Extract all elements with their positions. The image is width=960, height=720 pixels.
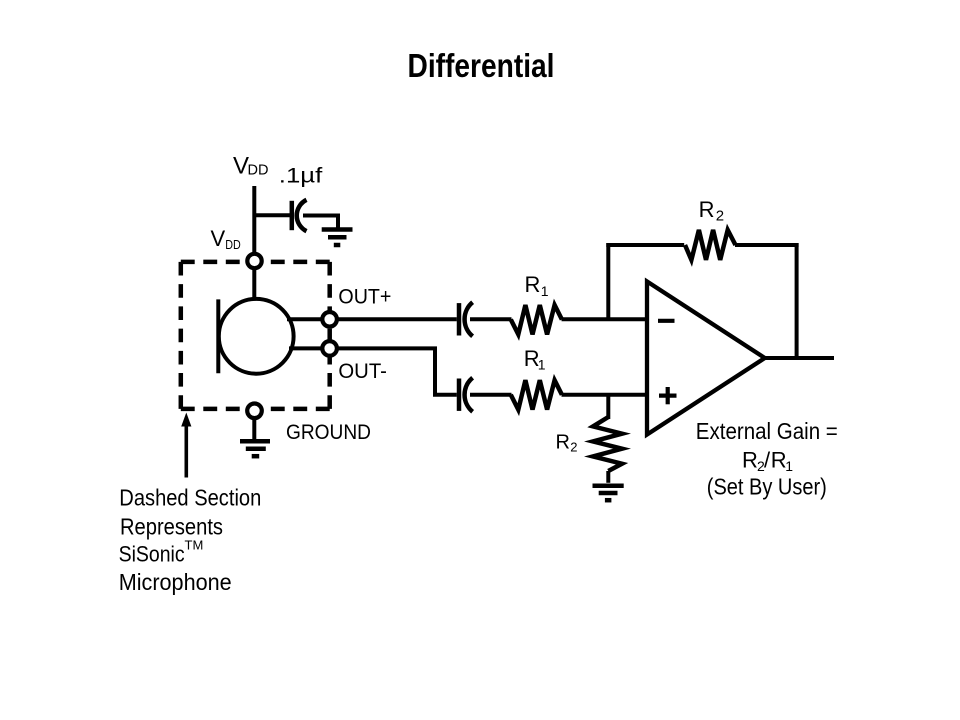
- label SiSonic TM: [119, 538, 204, 567]
- wire VDD vertical rail: [252, 186, 256, 300]
- svg-text:Dashed Section: Dashed Section: [119, 485, 261, 511]
- label R2/R1: [742, 447, 793, 474]
- svg-text:R: R: [771, 447, 787, 472]
- microphone M1 circle: [219, 299, 294, 374]
- svg-text:R: R: [556, 432, 570, 454]
- svg-text:GROUND: GROUND: [286, 420, 371, 444]
- wire bypass cap feed: [254, 213, 290, 217]
- wire OUT+ line: [337, 317, 457, 321]
- resistor R2 (feedback): [685, 230, 736, 260]
- wire feedback top left: [606, 243, 684, 247]
- label R2 (to ground): [556, 432, 578, 455]
- capacitor C2 plate 1: [457, 303, 462, 335]
- resistor R1 (upper): [511, 305, 562, 334]
- wire mic to OUT- node: [289, 346, 324, 350]
- resistor R2 (to ground): [593, 417, 622, 471]
- svg-text:(Set By User): (Set By User): [707, 474, 827, 500]
- wire cap C3 to R1 lower: [470, 393, 512, 397]
- wire feedback down to output: [795, 243, 799, 358]
- microphone M1 backplate bar: [216, 299, 220, 373]
- node OUT+: [322, 312, 337, 327]
- wire node to ground: [252, 418, 256, 441]
- node OUT-: [322, 341, 337, 356]
- label VDD (at box): [211, 226, 241, 252]
- wire output: [765, 356, 834, 360]
- svg-text:R: R: [699, 197, 715, 222]
- svg-text:Represents: Represents: [120, 514, 223, 540]
- wire R2 bottom tap: [606, 395, 610, 419]
- svg-text:1: 1: [785, 458, 793, 474]
- wire R2 to ground: [606, 471, 610, 483]
- svg-text:Microphone: Microphone: [119, 569, 232, 595]
- svg-text:OUT-: OUT-: [338, 360, 387, 383]
- node GROUND (bottom of box): [247, 404, 262, 419]
- wire R1 to op-amp inverting input: [562, 317, 648, 321]
- svg-text:R: R: [525, 272, 541, 297]
- op-amp minus sign: [658, 319, 675, 323]
- wire cap C2 to R1: [470, 317, 512, 321]
- svg-text:1: 1: [538, 357, 546, 373]
- capacitor C2 plate 2 (curved): [465, 302, 473, 336]
- dashed box (SiSonic outline): [181, 262, 330, 409]
- wire mic to OUT+ node: [287, 317, 324, 321]
- ground (bypass cap): [322, 230, 353, 246]
- svg-text:R: R: [742, 447, 758, 472]
- ground (microphone): [240, 441, 270, 456]
- svg-text:V: V: [211, 226, 226, 251]
- svg-text:TM: TM: [185, 538, 204, 553]
- capacitor C3 plate 1: [457, 379, 462, 411]
- capacitor C1 .1uf plate 2 (curved): [297, 200, 307, 231]
- svg-text:1: 1: [541, 283, 549, 299]
- capacitor C3 plate 2 (curved): [465, 378, 473, 412]
- wire feedback tap up: [606, 243, 610, 319]
- svg-text:External Gain =: External Gain =: [696, 418, 838, 444]
- svg-text:OUT+: OUT+: [338, 286, 391, 309]
- node VDD (top of box): [247, 254, 261, 268]
- wire feedback top right: [735, 243, 799, 247]
- wire R1 lower to op-amp non-inverting input: [562, 393, 648, 397]
- label R2 (feedback): [699, 197, 725, 225]
- wire OUT- step: [337, 348, 457, 394]
- ground (R2): [593, 486, 624, 500]
- capacitor C1 .1uf plate 1: [290, 201, 295, 230]
- label R1 (upper): [525, 272, 549, 299]
- svg-text:.1µf: .1µf: [279, 165, 323, 188]
- label R1 (lower): [524, 346, 546, 373]
- svg-text:DD: DD: [248, 163, 269, 179]
- svg-text:Differential: Differential: [408, 47, 555, 84]
- svg-text:2: 2: [716, 208, 724, 225]
- svg-text:SiSonic: SiSonic: [119, 542, 185, 567]
- op-amp U1: [647, 282, 765, 435]
- resistor R1 (lower): [511, 380, 562, 409]
- op-amp plus sign: [659, 387, 677, 404]
- label VDD (top): [233, 152, 268, 179]
- wire cap to ground: [303, 216, 338, 230]
- svg-text:DD: DD: [225, 237, 241, 252]
- arrow to dashed section: [181, 413, 191, 478]
- svg-text:2: 2: [570, 440, 577, 455]
